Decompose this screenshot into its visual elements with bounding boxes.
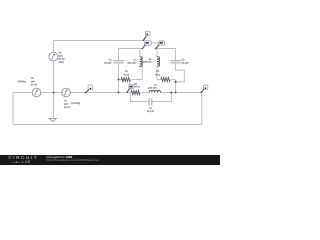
- label L6: [148, 84, 156, 89]
- footer user text: [46, 156, 72, 159]
- schematic canvas: [0, 0, 220, 165]
- label Vc: [64, 100, 70, 108]
- resistor R1: [121, 78, 130, 82]
- switch SW3 box: [159, 41, 165, 45]
- capacitor C2: [114, 61, 124, 63]
- wire R2 right lead: [171, 79, 175, 81]
- wire Va bottom lead to ground: [53, 61, 55, 118]
- wire R1 leads: [119, 65, 143, 80]
- junction node dots: [53, 92, 55, 94]
- switch SW4 lever: [86, 90, 89, 93]
- wire C2 bottom lead: [118, 64, 120, 93]
- resistor R2: [161, 78, 170, 82]
- label Vb: [31, 77, 37, 85]
- switch SW1 lever: [143, 36, 146, 40]
- wire right row to C3: [156, 49, 176, 61]
- label R1: [124, 70, 129, 75]
- wire between SW2 SW3: [151, 42, 159, 44]
- switch SW6 lever: [201, 90, 204, 93]
- switch SW3 lever: [156, 45, 160, 49]
- source Va: [49, 52, 58, 61]
- label R3: [134, 83, 137, 85]
- resistor R3: [131, 91, 140, 95]
- inductor L6: [149, 90, 160, 92]
- wire R2C3 junction vertical: [175, 80, 177, 93]
- wire C2 row: [119, 49, 143, 61]
- switch SW2 lever: [142, 45, 145, 49]
- capacitor C1: [149, 98, 152, 105]
- switch SW5 lever: [127, 89, 130, 93]
- wire left vertical: [12, 93, 14, 125]
- wire top rail: [54, 40, 144, 42]
- source Vc: [62, 88, 71, 97]
- label R3 value: [135, 86, 140, 88]
- wire right vertical: [201, 93, 203, 125]
- label Vc phase: [71, 102, 80, 104]
- wire L1 bottom lead: [157, 66, 161, 79]
- switch SW5 (middle row) box: [129, 85, 134, 89]
- source Vb: [32, 88, 41, 97]
- switch SW6 (right) box: [203, 85, 207, 89]
- label L4: [128, 59, 136, 64]
- switch SW1 box: [145, 31, 150, 36]
- switch SW4 (middle wire left) box: [88, 85, 93, 90]
- switch SW2 box: [145, 41, 152, 45]
- CircuitLab logo: [8, 156, 38, 161]
- wire L4 top lead: [139, 49, 141, 57]
- ground: [49, 118, 56, 121]
- label C1: [147, 107, 154, 112]
- label Vb phase: [17, 80, 26, 82]
- label C3: [181, 59, 188, 64]
- footer watermark bar: [0, 155, 220, 165]
- wire L1 top lead: [156, 49, 158, 57]
- inductor L1: [157, 57, 160, 67]
- wire C3 staircase: [176, 64, 185, 82]
- label C2: [104, 59, 111, 64]
- label R2: [155, 70, 160, 75]
- capacitor C3: [171, 61, 181, 63]
- wire C1 loop: [131, 93, 172, 102]
- lever foot dots: [143, 40, 145, 42]
- footer url text: [46, 159, 99, 162]
- label Va: [58, 52, 64, 64]
- inductor L4: [140, 57, 143, 67]
- label L1: [143, 58, 151, 63]
- wire Va top lead: [53, 41, 55, 53]
- wire bottom return: [13, 124, 202, 126]
- wire middle row: [13, 92, 202, 94]
